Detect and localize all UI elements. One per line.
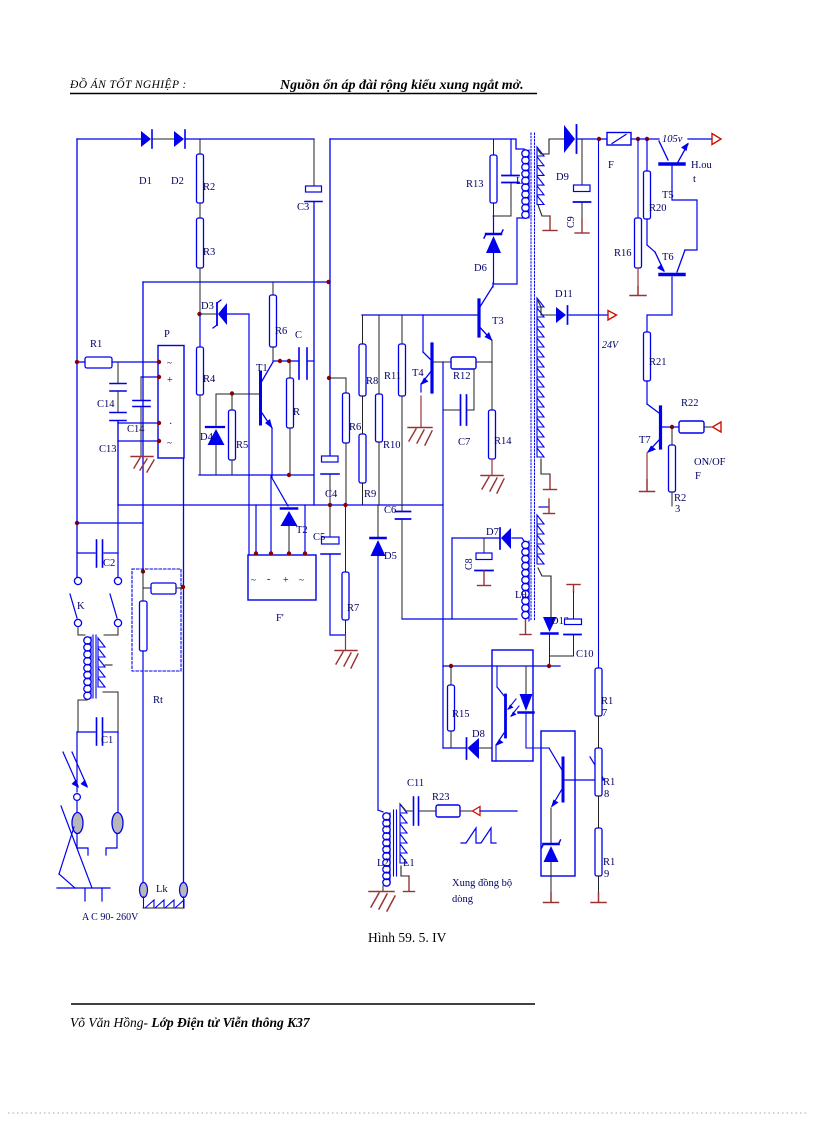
- resistor R9: [359, 434, 376, 505]
- resistor R14: [489, 410, 513, 459]
- svg-text:ĐỒ ÁN TỐT NGHIỆP :: ĐỒ ÁN TỐT NGHIỆP :: [69, 76, 187, 91]
- arrow ON/OFF input: [713, 422, 722, 432]
- wire R14 to ground: [491, 459, 493, 475]
- svg-text:Hình 59. 5. IV: Hình 59. 5. IV: [368, 930, 447, 945]
- svg-text:C8: C8: [464, 558, 475, 570]
- wire left P-column x143: [142, 282, 144, 571]
- resistor R23: [432, 792, 460, 817]
- svg-text:C4: C4: [325, 489, 338, 500]
- wire x443 long column: [442, 362, 444, 748]
- svg-text:3: 3: [675, 504, 680, 515]
- fuse F: [607, 133, 631, 172]
- svg-text:R8: R8: [366, 376, 378, 387]
- wire filter bottoms: [78, 700, 87, 732]
- resistor R4: [197, 347, 217, 395]
- resistor R21: [644, 332, 667, 381]
- footer rule: [71, 1003, 535, 1005]
- transistor T7: [639, 381, 661, 453]
- svg-text:T6: T6: [662, 252, 674, 263]
- transistor T8: [541, 748, 563, 808]
- node (288,475): [287, 473, 291, 477]
- resistor R7: [342, 505, 359, 635]
- svg-text:L9: L9: [515, 590, 527, 601]
- svg-text:L1: L1: [403, 858, 415, 869]
- svg-text:~: ~: [167, 358, 172, 368]
- startup resistor box Rt: [132, 569, 181, 671]
- ground under L2: [369, 886, 395, 911]
- svg-text:C6: C6: [384, 505, 396, 516]
- wire P right edge down: [183, 458, 185, 885]
- wire C3 down long: [313, 202, 315, 505]
- svg-text:D4: D4: [200, 432, 214, 443]
- wire R22 right: [704, 426, 713, 428]
- tap cap S2b: [539, 499, 555, 514]
- wire: [76, 801, 78, 813]
- node F' pin1: [254, 551, 258, 555]
- svg-text:D5: D5: [384, 551, 397, 562]
- resistor R12: [451, 357, 476, 382]
- node F' pin3: [287, 551, 291, 555]
- arrow 24V: [608, 311, 617, 321]
- capacitor C7: [443, 369, 474, 448]
- diode D4: [200, 394, 225, 475]
- wire T7 emitter ground: [640, 453, 655, 492]
- capacitor L (snubber): [502, 139, 522, 216]
- capacitor C8: [464, 538, 493, 571]
- svg-text:A C 90- 260V: A C 90- 260V: [82, 912, 139, 923]
- resistor R23a: [669, 427, 687, 515]
- svg-text:Lk: Lk: [156, 884, 168, 895]
- svg-text:7: 7: [602, 708, 607, 719]
- transistor T3: [479, 283, 504, 341]
- secondary S1: [537, 147, 544, 204]
- capacitor C2: [97, 540, 119, 569]
- svg-text:R20: R20: [649, 203, 667, 214]
- capacitor C: [295, 330, 314, 379]
- rectifier F' box: [248, 555, 316, 624]
- svg-text:R1: R1: [90, 339, 102, 350]
- node (647,139): [645, 137, 649, 141]
- svg-text:R1: R1: [601, 696, 613, 707]
- arrow H.out: [712, 134, 721, 145]
- wire D3 right: [227, 314, 249, 555]
- svg-text:H.ou: H.ou: [691, 160, 712, 171]
- node (280,361): [278, 359, 282, 363]
- resistor R19: [595, 828, 615, 880]
- tap cap L9 bottom: [520, 620, 531, 635]
- svg-text:Nguồn ổn áp đài rộng kiểu xung: Nguồn ổn áp đài rộng kiểu xung ngắt mở.: [279, 78, 524, 93]
- wire L1 top to C11: [401, 805, 412, 811]
- capacitor C6: [384, 505, 411, 619]
- wire: [153, 138, 174, 140]
- wire top rail box2: [330, 139, 524, 149]
- wire C5 bottom L: [330, 554, 345, 635]
- wire: [199, 203, 201, 218]
- wire C11 to R23: [419, 810, 436, 812]
- winding L9: [522, 541, 529, 548]
- wire S2 bottom hook: [541, 459, 550, 477]
- wire R17-R18: [598, 716, 600, 748]
- wire rail y619: [402, 618, 517, 620]
- svg-text:L2: L2: [377, 858, 389, 869]
- terminal circle: [74, 794, 81, 801]
- wire P pin3: [118, 422, 158, 424]
- node Rt top: [141, 569, 145, 573]
- wire T8 base to R18 wiper: [565, 779, 604, 781]
- tap cap R16 bottom: [630, 287, 646, 296]
- wire D11 to 24V arrow: [569, 314, 608, 316]
- svg-text:C3: C3: [297, 202, 309, 213]
- node (549,666): [547, 664, 551, 668]
- wire top rail to C3: [186, 138, 314, 140]
- svg-text:C5: C5: [313, 532, 325, 543]
- node P pin1: [157, 360, 161, 364]
- wire P pin2: [141, 376, 158, 378]
- node (330,378): [327, 376, 331, 380]
- svg-text:R2: R2: [203, 182, 215, 193]
- resistor R17: [595, 668, 613, 719]
- wire R16 ground stub: [637, 268, 639, 287]
- wire D6 bottom loop: [494, 218, 525, 284]
- wire switch to filter: [78, 627, 85, 635]
- resistor R16: [614, 139, 642, 268]
- svg-text:C11: C11: [407, 778, 424, 789]
- resistor R22: [679, 398, 704, 433]
- capacitor C10: [550, 585, 594, 661]
- svg-text:R2: R2: [674, 493, 686, 504]
- bridge rectifier P: [158, 329, 184, 458]
- capacitor C5: [313, 505, 340, 554]
- transistor T1: [256, 362, 273, 429]
- node (599,139): [597, 137, 601, 141]
- wire sync right: [480, 810, 517, 812]
- wire C14b to ground: [140, 407, 142, 456]
- winding L2: [383, 813, 390, 820]
- svg-text:R15: R15: [452, 709, 470, 720]
- svg-text:C14: C14: [97, 399, 115, 410]
- diode D12: [542, 616, 570, 666]
- wire fuse right: [631, 138, 659, 140]
- svg-text:T4: T4: [412, 368, 424, 379]
- svg-text:R6: R6: [349, 422, 361, 433]
- line filter core: [92, 635, 94, 698]
- capacitor C11: [407, 778, 424, 825]
- wire R7 ground stub: [345, 635, 347, 650]
- wire R19 ground: [591, 876, 606, 903]
- transformer core: [530, 133, 532, 620]
- resistor R18: [595, 748, 615, 800]
- wire T4 base to R12: [434, 361, 451, 363]
- resistor R15: [448, 666, 470, 748]
- tap cap C9 bottom: [575, 219, 589, 233]
- opto LED: [519, 666, 542, 748]
- opto phototransistor: [496, 666, 520, 760]
- svg-text:D9: D9: [556, 172, 569, 183]
- diode D1: [139, 130, 152, 187]
- svg-text:K: K: [77, 601, 85, 612]
- svg-text:~: ~: [299, 575, 304, 585]
- svg-text:C10: C10: [576, 649, 594, 660]
- tap cap T8 bottom: [544, 893, 559, 903]
- wire base rail y394: [216, 393, 259, 395]
- svg-text:T3: T3: [492, 316, 504, 327]
- svg-text:D1: D1: [139, 176, 152, 187]
- svg-text:C9: C9: [566, 216, 577, 228]
- svg-text:R: R: [293, 407, 300, 418]
- resistor Rh: [143, 583, 184, 594]
- svg-text:F: F: [608, 160, 614, 171]
- svg-text:F: F: [695, 471, 701, 482]
- capacitor C4: [321, 456, 339, 505]
- node R1 left: [75, 360, 79, 364]
- wire y523: [77, 522, 143, 524]
- svg-text:C13: C13: [99, 444, 117, 455]
- sawtooth symbol: [461, 828, 496, 843]
- diode D8: [467, 729, 493, 759]
- node (451,666): [449, 664, 453, 668]
- node P pin2: [157, 375, 161, 379]
- node F' pin2: [269, 551, 273, 555]
- svg-text:C1: C1: [101, 735, 113, 746]
- wire R12 right: [476, 361, 492, 363]
- resistor R1: [77, 339, 112, 368]
- svg-text:R9: R9: [364, 489, 376, 500]
- node (330,505): [328, 503, 332, 507]
- svg-text:D8: D8: [472, 729, 485, 740]
- resistor R20: [644, 139, 667, 219]
- resistor R10: [376, 315, 401, 505]
- capacitor C13: [99, 391, 126, 505]
- wire R1 to P: [112, 361, 158, 363]
- diode D11: [555, 289, 573, 324]
- wire R23 right: [460, 810, 472, 812]
- svg-text:T1: T1: [256, 363, 268, 374]
- wire R4 bottom: [199, 395, 201, 475]
- diode D9: [556, 125, 577, 183]
- wire rail y282: [143, 281, 330, 283]
- svg-text:8: 8: [604, 789, 609, 800]
- wire S2 top hook to D11: [538, 301, 556, 315]
- wire rail y505: [118, 504, 443, 506]
- node R4 top: [197, 312, 201, 316]
- resistor Rv: [140, 601, 164, 885]
- svg-text:R22: R22: [681, 398, 699, 409]
- svg-text:t: t: [693, 174, 696, 185]
- wire F' pin1: [255, 505, 257, 555]
- node Rt right: [181, 585, 185, 589]
- sync core: [393, 810, 395, 876]
- switch K: [70, 577, 122, 626]
- wire feedback column x598: [598, 141, 600, 668]
- line filter left winding: [84, 637, 91, 644]
- wire R4 col: [199, 314, 201, 347]
- svg-text:C2: C2: [103, 558, 115, 569]
- svg-text:ON/OF: ON/OF: [694, 457, 726, 468]
- wire D3 left: [200, 313, 217, 315]
- wire P pin4: [118, 440, 158, 442]
- wire into Rt: [142, 571, 144, 601]
- svg-text:R5: R5: [236, 440, 248, 451]
- svg-text:R23: R23: [432, 792, 450, 803]
- svg-text:R1: R1: [603, 857, 615, 868]
- wire F' pin4: [304, 505, 306, 555]
- filter tap tick: [105, 664, 112, 666]
- wire base rail y315: [362, 314, 477, 316]
- svg-text:24V: 24V: [602, 340, 620, 351]
- tap cap L1 bottom: [401, 866, 415, 892]
- zener D3: [201, 300, 227, 328]
- svg-text:9: 9: [604, 869, 609, 880]
- wire x77 to plug: [76, 732, 78, 792]
- svg-text:F': F': [276, 613, 284, 624]
- svg-text:dòng: dòng: [452, 894, 474, 905]
- wire T6 to R21: [647, 277, 672, 332]
- diode D7: [452, 527, 511, 549]
- secondary S3: [537, 515, 544, 564]
- transistor T4: [412, 315, 432, 392]
- wire T7 base: [662, 426, 679, 428]
- wire y553 left: [77, 552, 95, 554]
- svg-text:C14: C14: [127, 424, 145, 435]
- svg-text:105v: 105v: [662, 134, 683, 145]
- svg-text:R1: R1: [603, 777, 615, 788]
- driver box T8: [541, 731, 575, 876]
- wire y748: [443, 747, 466, 749]
- wire node rail y361: [273, 360, 299, 362]
- svg-text:T7: T7: [639, 435, 651, 446]
- capacitor C3: [297, 139, 322, 213]
- resistor R2: [197, 154, 216, 203]
- svg-text:C7: C7: [458, 437, 470, 448]
- svg-text:-: -: [267, 574, 270, 585]
- wire D7 loop left: [451, 538, 453, 619]
- tap cap S1: [543, 216, 557, 231]
- primary winding Lp: [522, 150, 529, 157]
- wire R6b branch: [330, 378, 346, 393]
- node (289,361): [287, 359, 291, 363]
- line filter right winding: [98, 638, 105, 687]
- svg-text:R10: R10: [383, 440, 401, 451]
- svg-text:R12: R12: [453, 371, 471, 382]
- svg-text:R16: R16: [614, 248, 632, 259]
- wire F' pin2: [270, 475, 272, 555]
- winding L1: [400, 804, 407, 863]
- svg-text:R11: R11: [384, 371, 401, 382]
- wire to L2: [378, 810, 383, 812]
- svg-text:D7: D7: [486, 527, 499, 538]
- wire D9 to fuse: [578, 138, 607, 140]
- wire T4 emitter stub: [420, 396, 422, 427]
- wire T5 collector loop to T6: [672, 166, 697, 250]
- cord pictogram: [57, 806, 110, 901]
- capacitor C14: [97, 362, 126, 410]
- svg-text:Xung đồng bộ: Xung đồng bộ: [452, 878, 512, 889]
- resistor R: [287, 361, 301, 475]
- wire R8-R9: [362, 396, 364, 434]
- header underline: [70, 93, 537, 95]
- wire D5 long column: [377, 556, 379, 810]
- wire left edge column: [76, 139, 78, 577]
- wire R2 stub: [199, 139, 201, 154]
- zener D6: [474, 216, 503, 284]
- diode-thyristor T2: [281, 509, 308, 554]
- svg-text:Võ Văn Hồng- Lớp Điện tử Viễn: Võ Văn Hồng- Lớp Điện tử Viễn thông K37: [70, 1015, 311, 1030]
- wiper arrow through R18: [590, 757, 604, 780]
- wire R18-R19: [598, 796, 600, 828]
- wire T1 emitter down: [272, 428, 288, 506]
- wire S1 top hook: [538, 139, 564, 154]
- svg-text:R6: R6: [275, 326, 287, 337]
- capacitor C1: [97, 718, 119, 746]
- wire bottom rail y475: [199, 474, 313, 476]
- resistor R13: [466, 139, 497, 216]
- resistor R3: [197, 218, 216, 268]
- svg-text:T2: T2: [296, 525, 308, 536]
- svg-text:~: ~: [167, 438, 172, 448]
- resistor R6b: [343, 393, 362, 505]
- wire S1 bottom hook: [538, 205, 550, 216]
- wire x118 to plug: [117, 732, 119, 813]
- plug pin left: [72, 813, 83, 834]
- node (672,427): [670, 425, 674, 429]
- wire T3 emitter node down: [491, 340, 493, 410]
- resistor R5: [229, 394, 249, 475]
- capacitor C9: [566, 139, 591, 228]
- node P pin4: [157, 439, 161, 443]
- diode D2: [171, 130, 185, 187]
- ground under R14: [481, 476, 504, 494]
- svg-text:P: P: [164, 329, 170, 340]
- svg-text:Rt: Rt: [153, 695, 163, 706]
- ground under P: [131, 457, 154, 473]
- svg-text:~: ~: [251, 575, 256, 585]
- tap cap S2: [544, 477, 557, 490]
- wire rail y666: [443, 665, 560, 667]
- wire box2 left edge: [329, 139, 331, 456]
- opto light arrows: [508, 699, 516, 709]
- ground under R7: [335, 651, 358, 669]
- svg-text:R13: R13: [466, 179, 484, 190]
- node R5 top: [230, 391, 234, 395]
- svg-text:+: +: [167, 375, 173, 386]
- tap cap C8 bottom: [478, 571, 491, 586]
- wire y732 left: [77, 731, 95, 733]
- resistor R11: [384, 315, 406, 505]
- svg-text:R21: R21: [649, 357, 667, 368]
- wire S3 bottom hook to D12: [538, 568, 551, 618]
- svg-text:R4: R4: [203, 374, 216, 385]
- optocoupler box: [492, 650, 533, 761]
- wire x118 column: [117, 362, 119, 383]
- wire top rail left: [77, 138, 141, 140]
- node F' pin4: [303, 551, 307, 555]
- transistor T6: [647, 219, 685, 275]
- svg-text:D2: D2: [171, 176, 184, 187]
- svg-text:+: +: [283, 575, 289, 586]
- svg-text:D6: D6: [474, 263, 487, 274]
- secondary S2: [537, 298, 544, 457]
- bottom dotted rule: [8, 1112, 808, 1114]
- svg-text:R3: R3: [203, 247, 215, 258]
- svg-text:C: C: [295, 330, 302, 341]
- wire emitter to out: [688, 138, 712, 140]
- node (638,139): [636, 137, 640, 141]
- inductor Lk: [140, 883, 188, 909]
- wire L9 top to D7: [512, 538, 524, 541]
- capacitor C14b: [127, 377, 150, 435]
- transistor T5: [659, 141, 689, 201]
- wire snubber bottom: [493, 215, 511, 217]
